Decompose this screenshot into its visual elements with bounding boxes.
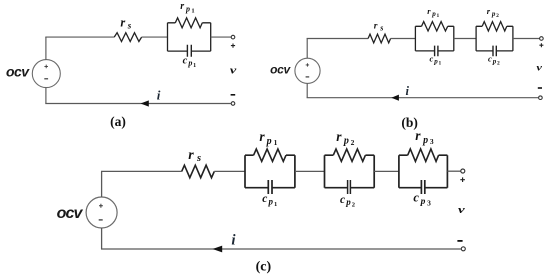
voltage source OCV (b) <box>295 58 320 83</box>
wire left-top vertical (a) <box>45 37 47 60</box>
voltage source OCV (c) <box>86 197 117 228</box>
RC block2 box edges (c) <box>325 155 375 188</box>
svg-text:ocv: ocv <box>6 63 30 79</box>
svg-text:ocv: ocv <box>270 63 291 77</box>
terminal - (b) <box>539 96 543 100</box>
terminal + (a) <box>231 35 235 39</box>
plus mark (a) <box>231 44 235 48</box>
terminal - (c) <box>461 247 465 251</box>
svg-text:i: i <box>157 87 161 102</box>
resistor Rp1 (c) <box>254 149 286 161</box>
svg-text:rp2: rp2 <box>487 6 499 19</box>
minus mark (b) <box>538 87 542 89</box>
current arrow (c) <box>213 246 223 253</box>
wire top rail to resistor (c) <box>101 170 182 172</box>
RC block1 box edges (b) <box>415 26 453 51</box>
terminal - (a) <box>231 102 235 106</box>
svg-text:rp1: rp1 <box>427 6 439 19</box>
resistor Rp1 (b) <box>422 22 448 31</box>
RC block3 box edges (c) <box>399 155 448 188</box>
wire block to + terminal (a) <box>211 36 231 38</box>
svg-text:i: i <box>405 84 409 98</box>
svg-text:rp1: rp1 <box>259 129 277 147</box>
wire left-top vertical (b) <box>306 39 308 59</box>
RC block1 box edges (c) <box>245 155 295 188</box>
wire resistor to block1 (b) <box>391 38 416 40</box>
resistor Rp2 (b) <box>482 22 507 31</box>
svg-text:v: v <box>536 63 543 73</box>
voltage source OCV (a) <box>32 60 60 88</box>
terminal + (c) <box>461 169 465 173</box>
svg-text:cp1: cp1 <box>262 193 277 208</box>
svg-text:cp2: cp2 <box>340 194 355 209</box>
resistor Rp2 (c) <box>333 149 365 161</box>
wire left-bottom vertical (a) <box>45 88 47 104</box>
svg-text:cp1: cp1 <box>430 53 442 66</box>
capacitor Cp1 (b) <box>415 46 453 57</box>
svg-text:v: v <box>230 64 237 76</box>
capacitor Cp3 (c) <box>399 180 448 194</box>
current arrow (a) <box>141 100 149 106</box>
wire resistor to block1 (c) <box>214 170 245 172</box>
capacitor Cp1 (c) <box>245 180 295 194</box>
svg-text:(c): (c) <box>256 259 272 274</box>
wire bottom rail (a) <box>45 103 231 105</box>
wire top rail to resistor (a) <box>45 36 114 38</box>
svg-text:(a): (a) <box>110 114 126 129</box>
svg-text:cp1: cp1 <box>183 55 197 68</box>
resistor Rs (b) <box>368 34 391 43</box>
svg-text:v: v <box>458 203 465 216</box>
svg-text:rp2: rp2 <box>336 129 354 147</box>
resistor Rp1 (a) <box>175 18 202 28</box>
wire resistor to RC block (a) <box>142 36 168 38</box>
svg-text:cp2: cp2 <box>488 53 500 66</box>
resistor Rp3 (c) <box>408 149 439 161</box>
minus mark (c) <box>457 240 462 242</box>
capacitor Cp2 (b) <box>476 46 513 57</box>
wire block3 to + terminal (c) <box>447 170 460 172</box>
plus mark (b) <box>539 43 543 47</box>
wire left-bottom vertical (b) <box>306 83 308 97</box>
wire block2 to + terminal (b) <box>513 38 540 40</box>
RC block box edges (a) <box>168 23 211 51</box>
svg-text:ocv: ocv <box>57 205 84 222</box>
wire block1 to block2 (c) <box>295 170 325 172</box>
svg-text:cp3: cp3 <box>413 191 431 208</box>
capacitor Cp1 (a) <box>168 45 211 57</box>
capacitor Cp2 (c) <box>325 180 375 194</box>
wire bottom rail (b) <box>307 97 539 99</box>
RC block2 box edges (b) <box>476 26 513 51</box>
svg-text:rs: rs <box>120 15 131 30</box>
svg-text:i: i <box>231 233 236 249</box>
wire left-top vertical (c) <box>101 171 103 197</box>
wire bottom rail (c) <box>101 248 461 250</box>
svg-text:rp1: rp1 <box>180 1 194 15</box>
svg-text:rs: rs <box>188 148 201 164</box>
wire top rail to resistor (b) <box>307 38 369 40</box>
resistor Rs (a) <box>114 33 141 42</box>
resistor Rs (c) <box>182 165 215 178</box>
minus mark (a) <box>231 94 236 96</box>
svg-text:rs: rs <box>374 21 384 32</box>
plus mark (c) <box>460 177 465 182</box>
wire block1 to block2 (b) <box>454 38 476 40</box>
wire left-bottom vertical (c) <box>101 228 103 249</box>
svg-text:rp3: rp3 <box>415 128 434 146</box>
wire block2 to block3 (c) <box>374 170 399 172</box>
terminal + (b) <box>540 37 544 41</box>
current arrow (b) <box>391 95 399 101</box>
